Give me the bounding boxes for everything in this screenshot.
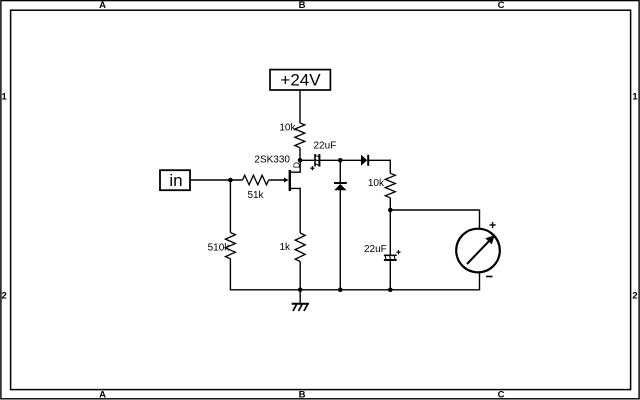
wire: R4 to ground node — [299, 262, 301, 290]
svg-text:2: 2 — [2, 291, 7, 302]
node: ground junction — [298, 288, 303, 293]
resistor R5 10k — [368, 173, 395, 198]
wire: R3 to bottom rail corner — [230, 259, 479, 290]
svg-text:D: D — [291, 162, 301, 168]
node: gate junction — [228, 178, 233, 183]
svg-text:1: 1 — [2, 92, 8, 103]
wire: C2 to bottom rail — [389, 260, 391, 290]
resistor R1 10k — [279, 122, 304, 147]
node: output node — [388, 208, 393, 213]
power source +24V — [270, 70, 330, 90]
svg-text:A: A — [99, 0, 106, 11]
svg-text:510k: 510k — [208, 242, 231, 253]
node: C2 bottom rail junction — [388, 288, 393, 293]
svg-text:C: C — [498, 390, 505, 400]
wire: in box to gate junction — [190, 179, 243, 181]
wire: D1 to R5 — [389, 160, 391, 174]
svg-text:C: C — [498, 0, 505, 11]
svg-text:22uF: 22uF — [364, 244, 387, 255]
wire: gate junction down to R3 — [229, 180, 231, 233]
diode D2 (vertical, cathode up) — [334, 160, 347, 289]
node: drain node — [298, 158, 303, 163]
svg-text:2: 2 — [632, 291, 637, 302]
svg-text:1: 1 — [632, 92, 638, 103]
wire: output node down to C2 — [389, 210, 391, 255]
svg-text:+24V: +24V — [280, 71, 321, 90]
svg-text:2SK330: 2SK330 — [254, 155, 290, 166]
svg-text:B: B — [299, 0, 306, 11]
wire: +24V box to R1 — [299, 90, 301, 123]
svg-text:22uF: 22uF — [314, 141, 337, 152]
capacitor C2 22uF (smoothing, polarized) — [364, 244, 401, 260]
wire: C1 node to D1 — [340, 159, 361, 161]
wire: R5 to output node — [389, 198, 391, 210]
diode D1 (horizontal, cathode right) — [361, 155, 390, 166]
svg-text:A: A — [99, 390, 106, 400]
meter M1 — [456, 222, 500, 277]
resistor R2 51k — [243, 175, 269, 201]
node: D2 bottom rail junction — [338, 288, 343, 293]
wire: output node to meter top — [390, 210, 479, 229]
transistor Q1 2SK330 (N-JFET) — [254, 155, 300, 234]
input terminal "in" — [160, 170, 190, 190]
node: C1 / D2 junction — [338, 158, 343, 163]
wire: meter bottom to rail — [479, 272, 481, 290]
svg-text:B: B — [299, 390, 306, 400]
resistor R4 1k — [279, 233, 305, 262]
svg-text:10k: 10k — [279, 122, 296, 133]
svg-text:10k: 10k — [368, 178, 385, 189]
svg-text:in: in — [169, 171, 182, 190]
resistor R3 510k — [208, 233, 236, 259]
wire: R1 to drain node — [299, 148, 301, 161]
ground — [292, 290, 309, 311]
svg-text:51k: 51k — [247, 190, 264, 201]
svg-text:1k: 1k — [279, 242, 291, 253]
capacitor C1 22uF (coupling) — [300, 141, 340, 171]
